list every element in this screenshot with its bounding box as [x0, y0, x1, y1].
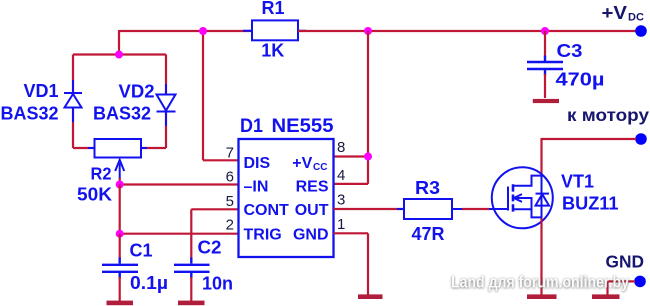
node B junction	[116, 230, 124, 238]
svg-text:470µ: 470µ	[556, 69, 605, 90]
wire node A to node B	[119, 185, 121, 234]
label +VDC	[602, 3, 644, 24]
wire pin4 row	[334, 183, 369, 185]
svg-text:0.1µ: 0.1µ	[130, 272, 168, 293]
svg-text:RES: RES	[296, 178, 329, 195]
svg-text:CC: CC	[313, 162, 327, 173]
wire diode top rail	[73, 53, 166, 55]
wire drain vertical	[540, 138, 542, 177]
svg-text:Land для forum.onliner.by: Land для forum.onliner.by	[451, 273, 629, 292]
ground under C2	[178, 301, 205, 306]
svg-text:10n: 10n	[202, 274, 233, 294]
capacitor C3	[527, 56, 563, 76]
svg-text:VT1: VT1	[561, 172, 594, 192]
node A junction	[116, 181, 124, 189]
svg-text:1: 1	[337, 216, 345, 233]
wire R3 to gate	[462, 208, 489, 210]
wire motor terminal to drain	[542, 138, 637, 140]
svg-text:2: 2	[226, 217, 234, 234]
svg-text:GND: GND	[293, 226, 329, 243]
svg-text:VD2: VD2	[119, 81, 155, 102]
wire pin7 up to top rail	[202, 31, 204, 160]
wire C3 to ground	[544, 74, 546, 98]
resistor R3	[397, 199, 462, 219]
svg-text:4: 4	[337, 167, 345, 184]
wire R2 right lead	[140, 147, 166, 149]
svg-text:+V: +V	[602, 3, 628, 23]
svg-text:CONT: CONT	[244, 202, 290, 219]
svg-text:1K: 1K	[261, 41, 284, 61]
svg-text:OUT: OUT	[295, 202, 329, 219]
transistor VT1 MOSFET	[489, 167, 553, 228]
svg-text:D1: D1	[240, 116, 263, 137]
wire pin8 row	[334, 155, 369, 157]
svg-text:3: 3	[337, 192, 345, 209]
wire top-left corner drop	[118, 30, 120, 55]
wire GND terminal	[608, 281, 636, 295]
svg-text:R2: R2	[91, 164, 112, 184]
wire top rail left segment	[119, 30, 251, 32]
terminal +VDC	[635, 25, 647, 37]
ground under C1	[107, 301, 134, 306]
svg-text:VD1: VD1	[23, 81, 58, 101]
terminal GND	[634, 276, 646, 288]
watermark Land для forum.onliner.by	[451, 273, 629, 293]
wire pin1 down to ground	[367, 233, 369, 295]
node junction pins 8-4 rail	[364, 27, 372, 35]
svg-text:50K: 50K	[77, 185, 112, 205]
wire C2 to ground	[190, 277, 192, 301]
svg-text:–IN: –IN	[244, 178, 269, 195]
node junction C3 on rail	[541, 27, 549, 35]
ground under source	[527, 294, 557, 299]
diode VD2	[157, 84, 176, 126]
svg-text:GND: GND	[606, 252, 645, 272]
svg-text:+V: +V	[292, 155, 312, 172]
wire source to ground	[540, 218, 542, 295]
capacitor C1	[102, 258, 138, 279]
ground pin1	[358, 294, 383, 299]
capacitor C2	[174, 258, 210, 279]
IC D1 NE555 box	[239, 139, 334, 257]
wire pin6 row	[120, 183, 239, 185]
wire top rail right segment	[298, 30, 636, 32]
svg-text:BAS32: BAS32	[1, 104, 59, 124]
svg-text:R3: R3	[415, 177, 440, 198]
svg-text:8: 8	[337, 139, 345, 156]
ground under C3	[533, 99, 559, 103]
node junction at diode rail	[115, 51, 123, 59]
svg-text:DIS: DIS	[244, 155, 271, 172]
wire pin7 row	[203, 159, 239, 161]
terminal motor	[635, 133, 647, 145]
svg-text:C3: C3	[557, 40, 583, 61]
wire pin5 down to C2	[190, 209, 192, 259]
wire pin3 row to R3	[334, 208, 405, 210]
diode VD1	[64, 80, 82, 122]
potentiometer R2 wiper arrow	[115, 160, 124, 179]
svg-text:C2: C2	[198, 238, 222, 258]
svg-text:6: 6	[226, 169, 234, 186]
wire R2 left lead	[73, 147, 95, 149]
wire C1 to ground	[119, 277, 121, 301]
svg-text:5: 5	[226, 193, 234, 210]
svg-text:NE555: NE555	[272, 116, 334, 137]
wire rail down to pin8	[367, 31, 369, 184]
wire VD1 branch vertical	[72, 55, 74, 149]
svg-text:C1: C1	[130, 241, 153, 261]
pin label +VCC	[292, 155, 327, 173]
resistor R1	[243, 20, 306, 40]
wire pin1 row	[334, 232, 369, 234]
potentiometer R2 body	[88, 139, 147, 158]
svg-text:DC: DC	[628, 12, 644, 24]
wire rail down to C3	[544, 31, 546, 57]
wire node B down to C1	[119, 234, 121, 259]
svg-text:к мотору: к мотору	[567, 105, 649, 125]
wire pin5 row	[191, 208, 238, 210]
svg-text:R1: R1	[261, 0, 284, 18]
svg-text:BAS32: BAS32	[93, 104, 151, 124]
svg-text:47R: 47R	[412, 223, 445, 244]
ground under GND terminal	[592, 294, 620, 299]
wire pin2 row	[120, 233, 239, 235]
svg-text:TRIG: TRIG	[244, 226, 282, 243]
node junction pin8	[364, 153, 372, 161]
wire VD2 branch vertical	[165, 55, 167, 149]
svg-text:BUZ11: BUZ11	[562, 194, 619, 214]
wire wiper to node A	[119, 178, 121, 184]
svg-text:7: 7	[226, 144, 234, 161]
node junction pin7 on rail	[199, 27, 207, 35]
